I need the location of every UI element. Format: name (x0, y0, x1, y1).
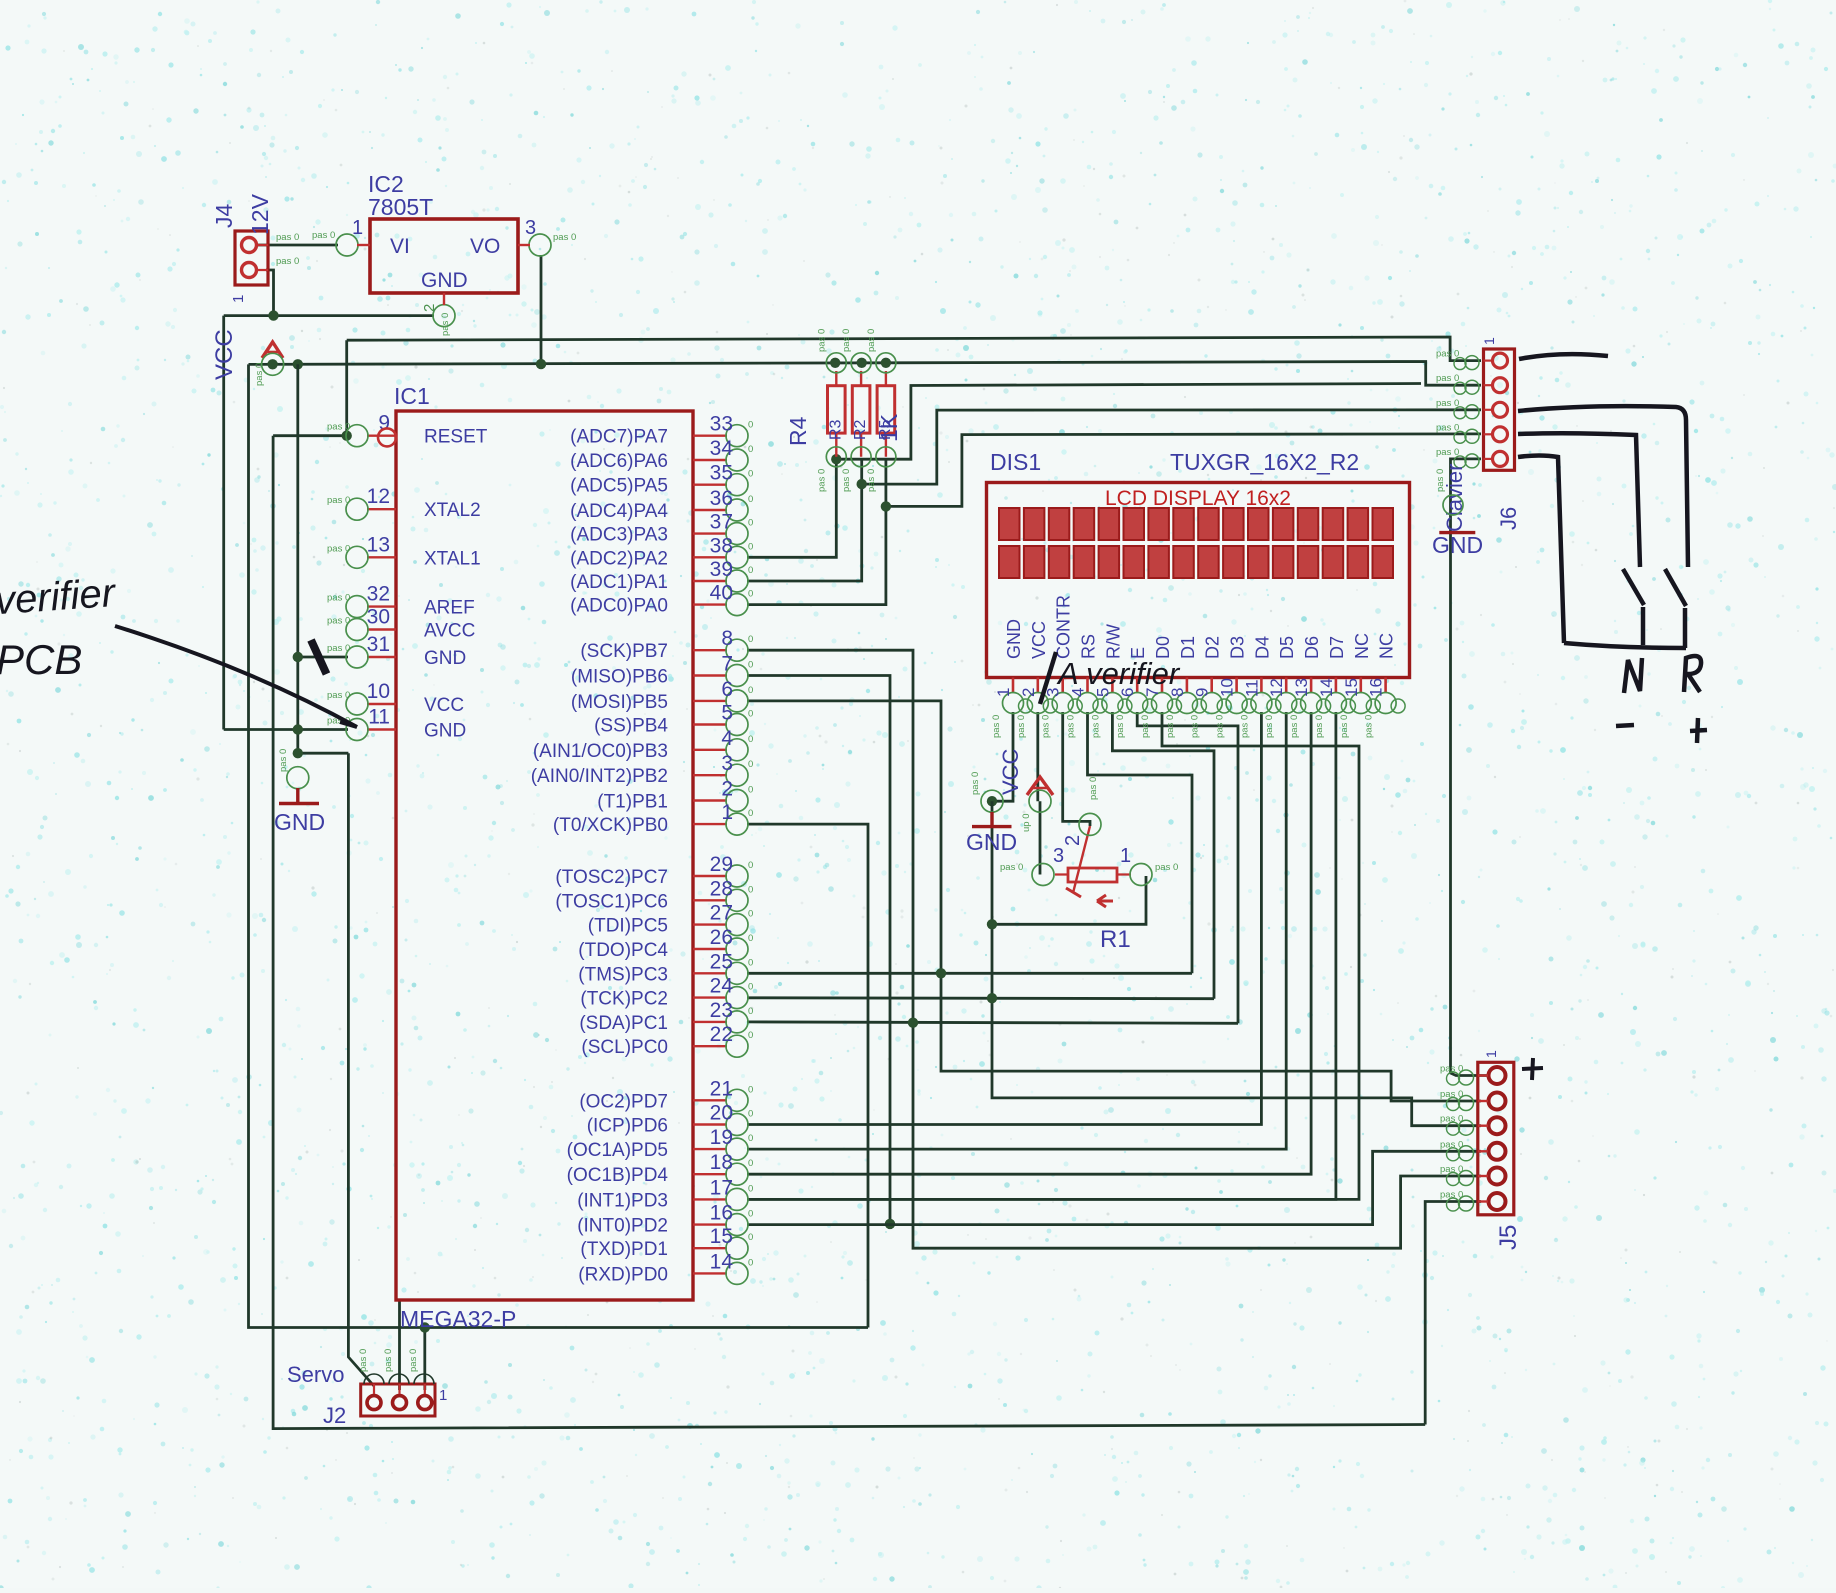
junction rail x=298 / pin11 row (293, 724, 303, 734)
label R4 (785, 416, 811, 446)
IC1 pin 24 (TCK)PC2 (580, 975, 753, 1010)
label VCC vertical near LCD pin1 (998, 748, 1023, 795)
hand wire J6 pin5 down (1518, 456, 1564, 644)
svg-text:VO: VO (470, 235, 500, 258)
label 12V (247, 193, 273, 235)
svg-text:pas 0: pas 0 (866, 469, 877, 492)
svg-text:(ADC4)PA4: (ADC4)PA4 (570, 501, 668, 522)
wire rail x=348 down to J2 pin1 (348, 753, 374, 1386)
svg-text:pas 0: pas 0 (1041, 715, 1052, 738)
svg-text:pas 0: pas 0 (278, 749, 289, 772)
svg-text:0: 0 (748, 957, 753, 968)
svg-text:38: 38 (710, 534, 733, 557)
label J5 (1495, 1225, 1522, 1250)
DIS1 pin 4 RS (1066, 634, 1107, 738)
IC2 pin2 GND (421, 293, 455, 336)
svg-text:(T0/XCK)PB0: (T0/XCK)PB0 (553, 815, 668, 836)
svg-text:0: 0 (748, 1209, 753, 1220)
svg-text:7805T: 7805T (368, 194, 433, 220)
resistor R4 element 3 (866, 329, 896, 492)
IC1 pin 38 (ADC2)PA2 (570, 534, 753, 569)
svg-text:0: 0 (748, 494, 753, 505)
IC1 pin 20 (ICP)PD6 (587, 1102, 754, 1137)
label J4 (211, 204, 237, 229)
IC1 pin 37 (ADC3)PA3 (570, 511, 753, 546)
svg-text:D5: D5 (1277, 636, 1297, 659)
svg-text:14: 14 (710, 1250, 734, 1273)
svg-text:LCD DISPLAY 16x2: LCD DISPLAY 16x2 (1105, 487, 1291, 510)
svg-text:0: 0 (748, 909, 753, 920)
handwritten arrow to pin 11 (115, 626, 357, 727)
svg-text:pas 0: pas 0 (327, 643, 350, 654)
svg-text:DIS1: DIS1 (990, 449, 1041, 475)
svg-text:pas 0: pas 0 (1066, 715, 1077, 738)
DIS1 pin 3 CONTR (1041, 595, 1083, 738)
wire R4a bottom to J6 pin2 branch (836, 384, 1421, 460)
ground symbol left (274, 749, 325, 835)
svg-text:5: 5 (721, 702, 733, 725)
DIS1 pin 12 D5 (1264, 636, 1305, 738)
junction R4a bottom (831, 454, 841, 464)
svg-text:0: 0 (748, 469, 753, 480)
svg-text:2: 2 (721, 778, 733, 801)
IC1 pin 26 (TDO)PC4 (578, 926, 753, 961)
DIS1 pin 16 NC (1364, 633, 1406, 738)
svg-text:1K: 1K (876, 413, 902, 442)
wire PB5 drop x=941 (747, 701, 1481, 1101)
DIS1 pin 10 D3 (1215, 636, 1257, 738)
IC1 pin 12 XTAL2 (327, 485, 481, 521)
wire LCD pin2 VCC drop (1036, 712, 1039, 801)
ground symbol J6 (1432, 469, 1483, 558)
svg-text:32: 32 (367, 583, 390, 606)
label IC2 (368, 171, 404, 197)
wire J5 pin6 to bottom frame (1425, 1202, 1481, 1425)
svg-text:(ADC0)PA0: (ADC0)PA0 (570, 596, 668, 617)
svg-text:0: 0 (748, 860, 753, 871)
svg-text:0: 0 (748, 808, 753, 819)
svg-text:D4: D4 (1252, 636, 1272, 659)
svg-text:13: 13 (1292, 678, 1311, 697)
IC1 pin 6 (MOSI)PB5 (571, 678, 753, 713)
power VCC symbol left (254, 342, 284, 386)
wire RESET row y=436 (273, 434, 347, 437)
svg-text:pas 0: pas 0 (327, 543, 350, 554)
svg-text:pas 0: pas 0 (276, 232, 299, 243)
svg-text:33: 33 (710, 413, 733, 436)
wire VCC net y=364 to J6 pin2 (249, 362, 1482, 386)
svg-text:pas 0: pas 0 (841, 329, 852, 352)
svg-text:(SS)PB4: (SS)PB4 (594, 716, 668, 737)
svg-text:(SCL)PC0: (SCL)PC0 (581, 1037, 668, 1058)
svg-text:1: 1 (1483, 1050, 1499, 1058)
svg-text:XTAL2: XTAL2 (424, 500, 481, 521)
svg-text:D3: D3 (1228, 636, 1248, 659)
junction R4b bottom (857, 479, 867, 489)
wire PB6 drop to PD2 row (747, 676, 890, 1224)
svg-text:26: 26 (710, 926, 733, 949)
IC2 pin3 (518, 217, 576, 256)
svg-text:pas 0: pas 0 (1140, 715, 1151, 738)
svg-text:GND: GND (274, 809, 325, 835)
svg-text:(TOSC1)PC6: (TOSC1)PC6 (555, 891, 668, 912)
svg-text:(TCK)PC2: (TCK)PC2 (580, 989, 668, 1010)
label R1 (1100, 926, 1131, 953)
svg-text:10: 10 (367, 680, 390, 703)
power VCC symbol at LCD pin2 (1021, 777, 1053, 832)
svg-text:IC1: IC1 (394, 383, 430, 409)
svg-text:(ADC3)PA3: (ADC3)PA3 (570, 525, 668, 546)
svg-text:22: 22 (710, 1023, 733, 1046)
IC1 pin 34 (ADC6)PA6 (570, 437, 753, 472)
svg-text:3: 3 (525, 217, 536, 239)
wire LCD pin3 to R1 wiper (1063, 712, 1090, 826)
display DIS1 TUXGR_16X2_R2 outline (987, 483, 1410, 678)
svg-text:0: 0 (748, 1006, 753, 1017)
svg-text:23: 23 (710, 999, 733, 1022)
svg-text:11: 11 (368, 706, 390, 729)
svg-text:2: 2 (421, 304, 438, 312)
svg-text:pas 0: pas 0 (991, 715, 1002, 738)
IC1 pin 7 (MISO)PB6 (571, 653, 753, 688)
svg-text:0: 0 (748, 734, 753, 745)
svg-text:15: 15 (710, 1225, 733, 1248)
svg-text:AVCC: AVCC (424, 621, 475, 642)
junction R4 tops on VCC net (830, 358, 891, 368)
wire pin11 row y=730 (224, 728, 348, 731)
label DIS1 (990, 449, 1041, 475)
svg-text:(ADC7)PA7: (ADC7)PA7 (570, 427, 668, 448)
wire LCD pin11 to PD6 (747, 712, 1261, 1125)
potentiometer R1 (1055, 826, 1131, 907)
IC1 pin 31 GND (327, 633, 466, 669)
svg-text:17: 17 (710, 1176, 733, 1199)
svg-text:14: 14 (1317, 678, 1336, 697)
svg-text:0: 0 (748, 884, 753, 895)
junction VCC rail x=298 (293, 359, 303, 369)
connector J5 (1447, 1062, 1514, 1215)
svg-text:0: 0 (748, 1158, 753, 1169)
junction GND symbol branch (293, 748, 303, 758)
wire rail x=298 (296, 364, 299, 753)
IC2 pin1 (312, 217, 370, 256)
wire VCC rail x=248 down to bottom (249, 364, 869, 1327)
svg-text:(INT1)PD3: (INT1)PD3 (577, 1190, 668, 1211)
svg-text:CONTR: CONTR (1054, 595, 1074, 659)
svg-text:pas 0: pas 0 (1115, 715, 1126, 738)
DIS1 pin 14 D7 (1314, 636, 1355, 738)
IC1 pin 22 (SCL)PC0 (581, 1023, 753, 1058)
connector J6 (1454, 349, 1515, 470)
wire LCD pin5 jog to PC2 net (1112, 712, 1214, 999)
wire J4 pin1 to IC2 VI (256, 244, 338, 247)
junction GNDrail/PC2 (987, 993, 997, 1003)
junction RESET node (342, 431, 352, 441)
junction PB7/PC1 (908, 1018, 918, 1028)
svg-text:0: 0 (748, 589, 753, 600)
svg-text:16: 16 (1367, 678, 1386, 697)
hand wire J6 pin3 to switch R (1518, 406, 1688, 567)
DIS1 pin 7 D0 (1140, 636, 1181, 738)
DIS1 pin 13 D6 (1289, 636, 1331, 738)
svg-text:J2: J2 (323, 1403, 346, 1428)
svg-text:(ADC6)PA6: (ADC6)PA6 (570, 451, 668, 472)
svg-text:36: 36 (710, 487, 733, 510)
DIS1 pin 5 R/W (1090, 624, 1132, 738)
svg-text:pas 0: pas 0 (1264, 715, 1275, 738)
svg-text:NC: NC (1377, 633, 1397, 659)
junction VCC symbol node (267, 359, 277, 369)
IC1 pin 9 RESET (327, 412, 488, 448)
wire GND rail x=992 (992, 801, 1481, 1125)
resistor R4 element 1 (816, 329, 846, 492)
svg-text:D6: D6 (1302, 636, 1322, 659)
wire R1 pin1 to GND rail (992, 876, 1146, 924)
svg-text:0: 0 (748, 709, 753, 720)
handwritten letter R (1684, 656, 1701, 692)
IC1 pin 4 (AIN1/OC0)PB3 (533, 727, 753, 762)
ground symbol LCD (966, 772, 1017, 855)
label 1K (876, 413, 902, 442)
svg-text:pas 0: pas 0 (1436, 373, 1459, 384)
svg-text:pas 0: pas 0 (1440, 1114, 1463, 1125)
svg-text:(OC2)PD7: (OC2)PD7 (579, 1091, 668, 1112)
svg-text:pas 0: pas 0 (816, 469, 827, 492)
DIS1 pin 11 D4 (1239, 636, 1281, 738)
svg-text:0: 0 (748, 444, 753, 455)
svg-text:pas 0: pas 0 (1239, 715, 1250, 738)
wire LCD pin6 jog to PC1 net (1137, 712, 1238, 1023)
connector J4 (235, 231, 268, 285)
svg-text:(TXD)PD1: (TXD)PD1 (580, 1239, 668, 1260)
svg-text:(AIN0/INT2)PB2: (AIN0/INT2)PB2 (531, 766, 668, 787)
svg-text:10: 10 (1218, 678, 1237, 697)
svg-text:11: 11 (1242, 679, 1261, 697)
svg-text:(ADC1)PA1: (ADC1)PA1 (570, 572, 668, 593)
svg-text:VI: VI (390, 235, 410, 258)
svg-text:pas 0: pas 0 (1314, 715, 1325, 738)
svg-text:pas 0: pas 0 (440, 313, 451, 336)
svg-text:pas 0: pas 0 (1155, 862, 1178, 873)
label IC1 (394, 383, 430, 409)
IC1 pin 23 (SDA)PC1 (579, 999, 753, 1034)
svg-text:(ADC2)PA2: (ADC2)PA2 (570, 548, 668, 569)
svg-text:4: 4 (721, 727, 733, 750)
resistor R4 element 2 (841, 329, 871, 492)
wire R4b to J6 pin3 (862, 410, 1481, 484)
svg-text:pas 0: pas 0 (1436, 398, 1459, 409)
svg-text:0: 0 (748, 634, 753, 645)
svg-text:0: 0 (748, 518, 753, 529)
IC1 pin 21 (OC2)PD7 (579, 1077, 753, 1112)
junction IC2 VO / VCC net (536, 359, 546, 369)
svg-text:pas 0: pas 0 (254, 363, 265, 386)
svg-text:pas 0: pas 0 (1440, 1139, 1463, 1150)
svg-text:pas 0: pas 0 (327, 616, 350, 627)
microcontroller IC1 MEGA32-P (396, 411, 693, 1300)
svg-text:0: 0 (748, 1133, 753, 1144)
wire IC2 VO drop (540, 255, 543, 364)
wire LCD pin12 to PD5 (747, 712, 1286, 1149)
svg-text:0: 0 (748, 982, 753, 993)
svg-text:pas 0: pas 0 (408, 1349, 419, 1372)
svg-text:31: 31 (367, 633, 390, 656)
svg-text:pas 0: pas 0 (970, 772, 981, 795)
label MEGA32-P (400, 1306, 516, 1332)
svg-text:1: 1 (1481, 337, 1497, 345)
svg-text:pas 0: pas 0 (327, 422, 350, 433)
junction PB6 / PD2 row (885, 1219, 895, 1229)
junction J4 pin2 / GND net (268, 310, 278, 320)
svg-text:Servo: Servo (287, 1362, 344, 1387)
svg-text:VCC: VCC (424, 695, 464, 716)
svg-text:12V: 12V (247, 193, 273, 235)
IC1 pin 11 GND (327, 706, 466, 742)
J5 pin tiny labels (1440, 1064, 1463, 1201)
svg-text:A verifier: A verifier (1056, 656, 1181, 691)
svg-text:0: 0 (748, 685, 753, 696)
label J4 pin1 number (230, 295, 247, 303)
svg-text:VCC: VCC (998, 748, 1023, 795)
svg-text:1: 1 (230, 295, 247, 303)
IC1 pin 10 VCC (327, 680, 464, 716)
svg-text:pas 0: pas 0 (276, 256, 299, 267)
svg-text:GND: GND (424, 648, 466, 669)
svg-text:pas 0: pas 0 (1088, 777, 1099, 800)
handwritten note A verifier (1040, 652, 1181, 704)
IC1 pin 2 (T1)PB1 (597, 778, 753, 813)
svg-text:pas 0: pas 0 (1440, 1089, 1463, 1100)
svg-text:0: 0 (748, 565, 753, 576)
IC1 pin 13 XTAL1 (327, 533, 481, 569)
IC1 pin 29 (TOSC2)PC7 (555, 853, 753, 888)
IC1 pin 1 (T0/XCK)PB0 (553, 801, 753, 836)
svg-text:(TOSC2)PC7: (TOSC2)PC7 (555, 867, 668, 888)
label LCD DISPLAY 16x2 (1105, 487, 1291, 510)
svg-text:PCB: PCB (0, 636, 82, 683)
wire LCD pin7 jog to PC0 net (747, 712, 1359, 1199)
svg-text:(TDO)PC4: (TDO)PC4 (578, 940, 668, 961)
svg-text:(TDI)PC5: (TDI)PC5 (588, 916, 668, 937)
wire GND31 to rail (298, 656, 348, 659)
svg-text:GND: GND (424, 721, 466, 742)
wire PC3 row y=973 (747, 972, 1192, 975)
svg-text:0: 0 (748, 1084, 753, 1095)
junction PB5/PC3 (936, 968, 946, 978)
label 7805T (368, 194, 433, 220)
IC1 pin 18 (OC1B)PD4 (567, 1151, 754, 1186)
label Clavier (1442, 464, 1467, 532)
label Servo (287, 1362, 344, 1387)
svg-text:2: 2 (1019, 688, 1038, 697)
svg-text:0: 0 (748, 1109, 753, 1120)
IC1 pin 15 (TXD)PD1 (580, 1225, 753, 1260)
wire LCD pin4 jog to PC3 net (1088, 712, 1193, 973)
junction GND31 rail (293, 652, 303, 662)
label VCC vertical left (211, 329, 238, 380)
svg-text:19: 19 (710, 1126, 733, 1149)
wire J6 pin5 to GND and rail to J5 pin1 (1451, 459, 1489, 1076)
IC1 pin 35 (ADC5)PA5 (570, 462, 753, 497)
DIS1 pin 2 VCC (1016, 621, 1057, 738)
svg-text:pas 0: pas 0 (1165, 715, 1176, 738)
svg-text:28: 28 (710, 877, 733, 900)
svg-text:21: 21 (710, 1077, 733, 1100)
IC1 pin 28 (TOSC1)PC6 (555, 877, 753, 912)
svg-text:NC: NC (1352, 633, 1372, 659)
IC1 pin 16 (INT0)PD2 (577, 1202, 753, 1237)
handwritten plus at J5 (1522, 1058, 1543, 1080)
svg-text:6: 6 (721, 678, 733, 701)
wire J2 pin2 riser (398, 1301, 401, 1390)
svg-text:0: 0 (748, 660, 753, 671)
IC1 pin 40 (ADC0)PA0 (570, 582, 753, 617)
wire LCD pin13 to PD4 (747, 712, 1311, 1174)
wire J2 pin3 riser (423, 1328, 426, 1391)
R1 pin2 circle (1062, 777, 1101, 846)
wire PD2 row to J5 pin4 (747, 1151, 1481, 1224)
wire PB7 drop x=913 (747, 650, 1481, 1248)
wire J4 pin2 drop to GND net (266, 270, 274, 316)
IC1 pin 5 (SS)PB4 (594, 702, 753, 737)
svg-text:pas 0: pas 0 (383, 1349, 394, 1372)
svg-text:VCC: VCC (211, 329, 238, 380)
svg-text:30: 30 (367, 606, 390, 629)
wire RESET drop x=347 (345, 340, 348, 436)
svg-text:pas 0: pas 0 (816, 329, 827, 352)
handwritten minus (1616, 725, 1634, 726)
svg-text:(ADC5)PA5: (ADC5)PA5 (570, 476, 668, 497)
svg-text:(MISO)PB6: (MISO)PB6 (571, 667, 668, 688)
IC1 pin 39 (ADC1)PA1 (570, 558, 753, 593)
label J2 (323, 1403, 346, 1428)
svg-text:(AIN1/OC0)PB3: (AIN1/OC0)PB3 (533, 741, 668, 762)
wire PC1 row y=1023 (747, 1022, 1238, 1023)
label J6 pin1 number (1481, 337, 1497, 345)
svg-text:(INT0)PD2: (INT0)PD2 (577, 1216, 668, 1237)
svg-text:1: 1 (1120, 845, 1131, 867)
svg-text:29: 29 (710, 853, 733, 876)
svg-text:pas 0: pas 0 (1190, 715, 1201, 738)
svg-text:pas 0: pas 0 (1215, 715, 1226, 738)
hand wire J6 pin1 stub (1519, 354, 1608, 359)
wire PB0 drop to bottom net (747, 824, 868, 1327)
svg-text:3: 3 (721, 752, 733, 775)
svg-text:pas 0: pas 0 (1440, 1164, 1463, 1175)
svg-text:pas 0: pas 0 (1436, 422, 1459, 433)
svg-text:R1: R1 (1100, 926, 1131, 953)
svg-text:pas 0: pas 0 (1435, 469, 1446, 492)
svg-text:pas 0: pas 0 (312, 230, 335, 241)
DIS1 pin 6 E (1115, 647, 1157, 738)
svg-text:34: 34 (710, 437, 734, 460)
svg-text:pas 0: pas 0 (553, 232, 576, 243)
wire PC2 row y=998 (747, 996, 1214, 1000)
DIS1 pin 9 D2 (1190, 636, 1231, 738)
svg-text:12: 12 (367, 485, 390, 508)
svg-text:1: 1 (352, 217, 363, 239)
IC1 pin 19 (OC1A)PD5 (567, 1126, 754, 1161)
svg-text:pas 0: pas 0 (358, 1349, 369, 1372)
wire GND net J4/IC2 y=316 (224, 314, 434, 317)
wire VCC node to R1 pin3 (1039, 801, 1042, 874)
IC1 pin 3 (AIN0/INT2)PB2 (531, 752, 754, 787)
svg-text:24: 24 (710, 975, 734, 998)
label J6 (1496, 507, 1521, 530)
svg-text:0: 0 (748, 1183, 753, 1194)
svg-text:pas 0: pas 0 (327, 495, 350, 506)
handwritten note verifier PCB (0, 571, 118, 683)
